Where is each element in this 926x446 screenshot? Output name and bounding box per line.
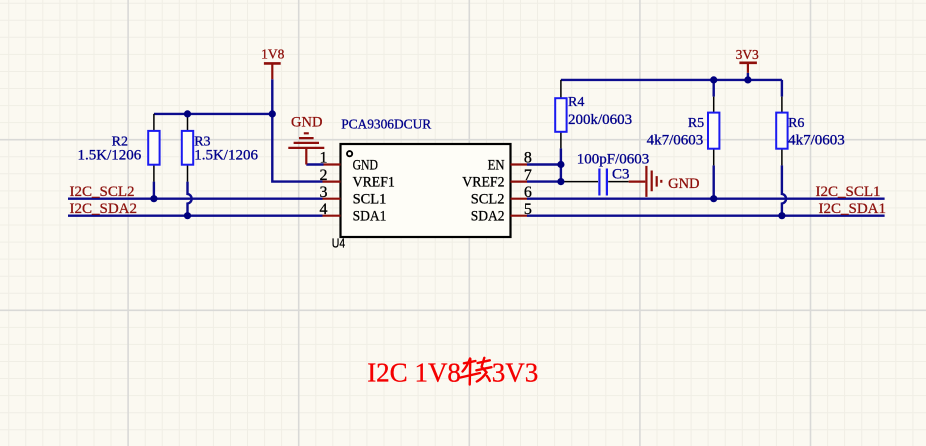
junction pin7 / C3 <box>557 178 564 185</box>
junction R5 top rail <box>710 76 717 83</box>
wire 1V8 vertical to pin2 <box>272 79 322 181</box>
svg-text:VREF1: VREF1 <box>353 175 395 191</box>
svg-text:3V3: 3V3 <box>492 357 539 387</box>
resistor R6 leads <box>781 97 783 166</box>
svg-text:SDA1: SDA1 <box>353 209 387 225</box>
resistor R2 leads <box>153 114 155 182</box>
svg-text:GND: GND <box>353 158 378 174</box>
svg-text:2: 2 <box>320 167 328 184</box>
svg-text:I2C_SDA2: I2C_SDA2 <box>70 201 138 217</box>
resistor R3 leads <box>187 114 189 182</box>
wire I2C_SCL1 net <box>527 197 885 199</box>
power port 3V3 <box>739 61 757 64</box>
junction 3V3 rail <box>744 76 751 83</box>
svg-text:3V3: 3V3 <box>736 47 759 62</box>
resistor R4 leads <box>560 80 562 148</box>
svg-text:4: 4 <box>320 201 328 218</box>
resistor R5 <box>708 113 719 149</box>
svg-text:GND: GND <box>668 176 699 192</box>
svg-text:I2C_SCL1: I2C_SCL1 <box>816 184 881 200</box>
U4 pin-1 indicator circle <box>347 151 352 156</box>
title hanzi ZHUAN (转) <box>461 358 492 385</box>
wire R5 lower segment <box>713 165 715 198</box>
svg-text:4k7/0603: 4k7/0603 <box>788 132 845 148</box>
capacitor C3 plates <box>599 169 607 196</box>
svg-text:R6: R6 <box>788 116 804 131</box>
pin 8 <box>511 163 528 165</box>
wire R4 bottom to pin7 <box>560 148 562 181</box>
pin 7 <box>511 181 528 183</box>
junction R5 / I2C_SCL1 <box>710 195 717 202</box>
pin 3 <box>323 198 341 200</box>
svg-text:1V8: 1V8 <box>261 47 284 62</box>
junction R2 / I2C_SCL2 <box>150 195 157 202</box>
svg-text:VREF2: VREF2 <box>462 175 504 191</box>
pin 6 <box>511 198 528 200</box>
svg-text:EN: EN <box>488 158 505 174</box>
resistor R3 <box>182 131 193 165</box>
svg-text:I2C_SCL2: I2C_SCL2 <box>70 184 135 200</box>
pin 4 <box>323 215 341 217</box>
junction R3 / I2C_SDA2 <box>184 212 191 219</box>
IC U4 PCA9306DCUR body <box>341 144 511 237</box>
svg-text:I2C_SDA1: I2C_SDA1 <box>819 201 887 217</box>
wire GND to pin1 <box>306 163 323 165</box>
junction R6 / I2C_SDA1 <box>778 212 785 219</box>
ground symbol at C3 (rotated) <box>629 166 662 197</box>
svg-text:C3: C3 <box>612 167 630 183</box>
ground symbol near pin 1 <box>288 133 324 164</box>
wire I2C_SCL2 net <box>68 197 323 199</box>
svg-text:8: 8 <box>524 150 532 167</box>
wire pin8 to R4 node <box>527 163 561 165</box>
power port 1V8 <box>264 62 281 65</box>
svg-text:1.5K/1206: 1.5K/1206 <box>78 148 142 164</box>
wire 3V3 stub <box>747 73 749 80</box>
svg-text:GND: GND <box>291 115 322 131</box>
wire 3V3 top rail <box>561 79 782 81</box>
resistor R2 <box>148 131 159 165</box>
junction pin8 / R4 <box>557 161 564 168</box>
svg-text:3: 3 <box>320 184 328 201</box>
junction 1V8 rail <box>269 110 276 117</box>
svg-text:I2C 1V8: I2C 1V8 <box>367 357 461 387</box>
wire I2C_SDA2 net <box>68 214 323 216</box>
capacitor C3 leads <box>562 181 629 183</box>
wire R5 upper stub <box>713 80 715 97</box>
svg-text:R5: R5 <box>688 116 704 131</box>
svg-text:6: 6 <box>524 184 532 201</box>
svg-text:SCL2: SCL2 <box>471 192 505 208</box>
svg-text:7: 7 <box>524 167 532 184</box>
wire R6 lower segment with hop <box>782 165 786 215</box>
svg-text:SDA2: SDA2 <box>471 209 505 225</box>
svg-text:100pF/0603: 100pF/0603 <box>577 152 650 168</box>
svg-text:1.5K/1206: 1.5K/1206 <box>194 148 258 164</box>
pin 5 <box>511 215 528 217</box>
svg-text:PCA9306DCUR: PCA9306DCUR <box>341 118 432 133</box>
wire R6 upper stub <box>781 80 783 97</box>
resistor R6 <box>776 113 787 149</box>
pin 1 <box>324 163 341 165</box>
svg-text:U4: U4 <box>332 237 345 251</box>
wire R2 lower segment <box>153 182 155 199</box>
wire 1V8 rail horizontal <box>154 113 272 115</box>
svg-text:R4: R4 <box>568 95 584 110</box>
svg-text:4k7/0603: 4k7/0603 <box>647 132 704 148</box>
svg-text:1: 1 <box>320 150 328 167</box>
pin 2 <box>323 181 341 183</box>
resistor R5 leads <box>713 97 715 166</box>
junction R3 top rail <box>184 110 191 117</box>
wire pin7 to C3 node <box>527 180 561 182</box>
svg-text:200k/0603: 200k/0603 <box>568 112 632 128</box>
svg-text:5: 5 <box>524 201 532 218</box>
wire R3 lower segment with hop <box>188 182 192 216</box>
wire I2C_SDA1 net <box>527 214 885 216</box>
svg-text:SCL1: SCL1 <box>353 192 387 208</box>
resistor R4 <box>555 98 566 132</box>
